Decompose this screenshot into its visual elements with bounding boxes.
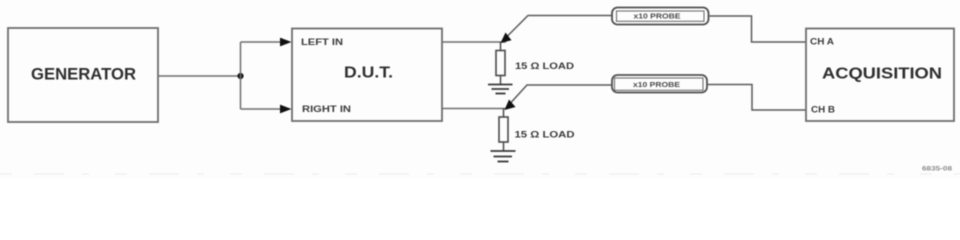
svg-text:6835-08: 6835-08 <box>922 165 952 172</box>
probe P2 x10 body <box>612 75 707 93</box>
generator block <box>8 28 158 122</box>
wire probe P1 to CH A <box>709 16 807 42</box>
DUT block <box>292 29 442 122</box>
wire R2 to ground <box>503 142 505 151</box>
wire DUT right output to node <box>442 108 506 110</box>
probe P2 inner face <box>615 78 704 90</box>
svg-text:LEFT IN: LEFT IN <box>301 37 343 47</box>
wire diagonal tap to probe P1 <box>502 16 612 42</box>
junction node <box>237 73 243 79</box>
wire generator output <box>158 75 241 77</box>
wire R1 to ground <box>500 76 502 85</box>
probe P1 inner face <box>617 11 705 21</box>
scan artifact line <box>0 173 960 175</box>
ground G1 <box>488 85 513 94</box>
probe P1 x10 body <box>612 8 709 25</box>
ground G2 <box>491 151 516 162</box>
svg-text:x10 PROBE: x10 PROBE <box>633 82 680 89</box>
wire node to resistor R1 <box>500 42 502 51</box>
arrowhead RIGHT IN <box>280 105 292 114</box>
wire node to resistor R2 <box>503 109 505 118</box>
svg-text:RIGHT IN: RIGHT IN <box>302 104 351 114</box>
acquisition block <box>806 29 954 122</box>
resistor R2 <box>499 117 508 142</box>
wire probe P2 to CH B <box>707 85 806 111</box>
svg-text:GENERATOR: GENERATOR <box>31 64 136 83</box>
svg-text:D.U.T.: D.U.T. <box>344 64 393 81</box>
arrowhead tap P2 <box>505 100 516 111</box>
wire to RIGHT IN <box>241 108 286 110</box>
wire to LEFT IN <box>241 41 286 43</box>
svg-text:x10 PROBE: x10 PROBE <box>634 14 681 21</box>
arrowhead LEFT IN <box>280 38 292 47</box>
resistor R1 <box>496 51 505 76</box>
wire diagonal tap to probe P2 <box>506 85 612 108</box>
svg-text:ACQUISITION: ACQUISITION <box>822 65 942 82</box>
svg-text:15 Ω LOAD: 15 Ω LOAD <box>515 130 576 140</box>
svg-text:CH B: CH B <box>811 105 836 115</box>
wire DUT left output to node <box>442 41 506 43</box>
arrowhead tap P1 <box>501 33 512 44</box>
svg-text:15 Ω LOAD: 15 Ω LOAD <box>515 61 575 71</box>
svg-text:CH A: CH A <box>810 36 835 46</box>
wire splitter vertical <box>240 42 242 109</box>
